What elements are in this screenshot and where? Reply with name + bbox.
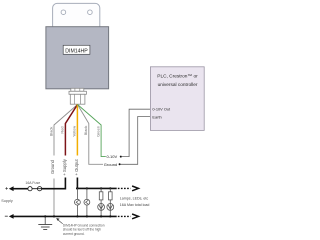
ground bus xyxy=(13,215,117,217)
arrow bottom right xyxy=(132,214,138,219)
junction led C top xyxy=(100,187,102,189)
svg-text:Green: Green xyxy=(96,126,101,137)
junction ground stub xyxy=(44,215,46,217)
wire black 0-10V ground xyxy=(78,105,104,165)
svg-text:16A Fuse: 16A Fuse xyxy=(25,181,40,185)
bracket hole left xyxy=(61,10,66,15)
wire 0-10V to controller xyxy=(122,109,151,156)
svg-text:+ Output: + Output xyxy=(74,158,79,175)
svg-text:Earth: Earth xyxy=(152,114,161,119)
svg-text:0-10V: 0-10V xyxy=(107,154,118,159)
junction led D top xyxy=(109,187,111,189)
wire black ground (left) xyxy=(54,105,78,217)
junction w3 top bus xyxy=(76,187,78,189)
LED load D xyxy=(107,188,114,216)
terminal dot 0-10V xyxy=(120,156,122,158)
svg-text:Black: Black xyxy=(48,127,53,137)
svg-text:Red: Red xyxy=(60,126,65,133)
junction lamp B bottom xyxy=(86,215,88,217)
lamp A xyxy=(75,188,81,216)
svg-text:Black: Black xyxy=(83,126,88,136)
junction lamp B top xyxy=(86,187,88,189)
svg-text:Ground: Ground xyxy=(104,162,117,167)
svg-text:DIM14HP: DIM14HP xyxy=(65,48,88,54)
arrow top right xyxy=(132,186,138,191)
supply line with corner from red wire xyxy=(42,178,66,189)
svg-text:PLC, Crestron™ or: PLC, Crestron™ or xyxy=(157,73,198,79)
lamp B xyxy=(84,188,90,216)
label - (return) xyxy=(5,215,8,217)
svg-text:DIM14HP Ground connection: DIM14HP Ground connection xyxy=(63,223,105,227)
cable gland xyxy=(69,88,86,104)
top load bus xyxy=(76,187,117,189)
svg-text:Lamps, LEDs, etc: Lamps, LEDs, etc xyxy=(120,196,149,200)
wire fuse to supply arrow xyxy=(13,188,28,190)
junction black wire to ground bus xyxy=(53,215,55,217)
svg-text:+ Supply: + Supply xyxy=(62,158,67,175)
svg-text:universal controller: universal controller xyxy=(158,82,198,88)
wire green 0-10V xyxy=(78,105,106,157)
note text xyxy=(63,223,105,236)
dimmer body DIM14HP xyxy=(46,27,109,89)
wire yellow +output xyxy=(76,104,78,155)
junction lamp A bottom xyxy=(76,215,78,217)
label + (supply) xyxy=(5,187,7,189)
svg-text:Ground: Ground xyxy=(50,159,55,174)
svg-text:Yellow: Yellow xyxy=(72,126,77,137)
svg-text:0-10V Out: 0-10V Out xyxy=(152,106,171,111)
LED load C xyxy=(98,188,105,216)
controller box PLC xyxy=(150,67,204,131)
svg-text:16A Max total load: 16A Max total load xyxy=(120,203,150,207)
ground symbol xyxy=(38,216,52,229)
dashed continuation bottom xyxy=(118,215,131,217)
junction led D bottom xyxy=(109,215,111,217)
ground - arrow xyxy=(9,214,14,219)
label DIM14HP xyxy=(63,45,90,54)
svg-text:Supply: Supply xyxy=(1,199,13,203)
wire Earth to controller xyxy=(121,117,151,165)
junction led C bottom xyxy=(100,215,102,217)
mounting bracket xyxy=(53,3,100,31)
wire red +supply xyxy=(65,105,77,156)
terminal dot Ground xyxy=(119,163,121,165)
dashed continuation top xyxy=(118,187,131,189)
fuse F1 16A xyxy=(28,187,42,191)
supply + arrow xyxy=(9,186,14,191)
output wire corner to load bus xyxy=(76,178,78,189)
bracket hole right xyxy=(88,10,93,15)
note leader arrow xyxy=(56,218,63,224)
svg-text:should be tee'd off the high: should be tee'd off the high xyxy=(63,228,101,232)
svg-text:current ground.: current ground. xyxy=(63,232,85,236)
